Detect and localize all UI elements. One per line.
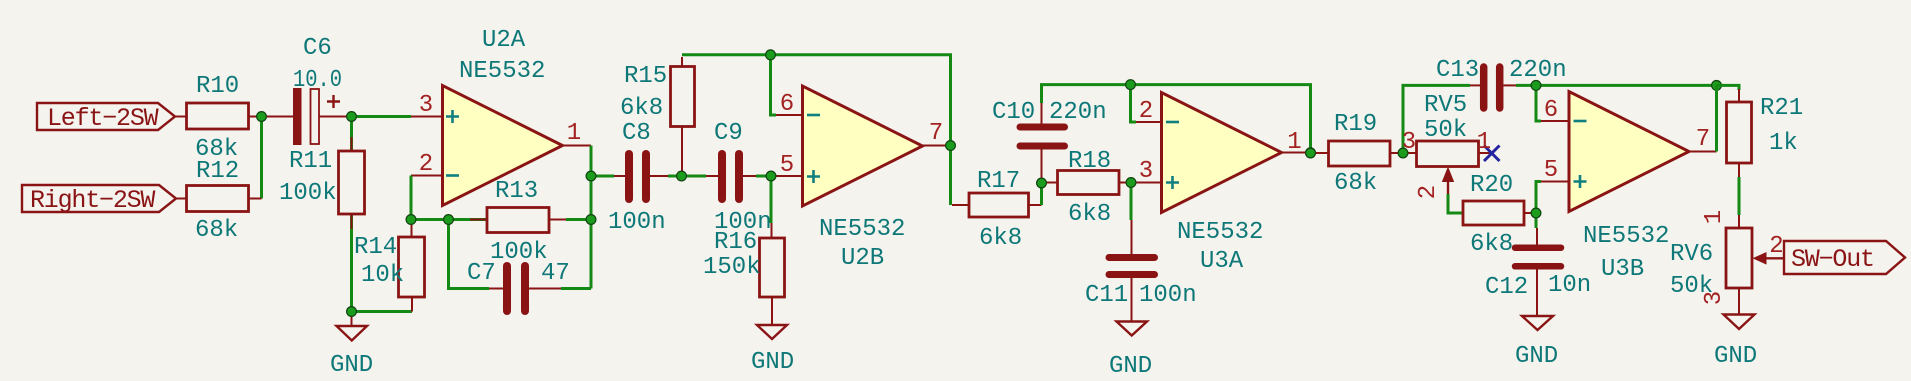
svg-text:C10: C10	[992, 99, 1035, 126]
junction pin5 node	[766, 171, 776, 181]
U2B minus symbol	[807, 114, 820, 117]
svg-text:1: 1	[1477, 129, 1491, 156]
wire node A vertical	[1040, 183, 1043, 205]
op-amp U3A body	[1162, 93, 1282, 213]
C11 bottom stem to GND	[1131, 278, 1133, 322]
resistor R20	[1463, 201, 1524, 225]
R18 right stub	[1119, 182, 1131, 184]
junction output rail U3B	[1712, 81, 1722, 91]
wire pin6 drop	[771, 55, 777, 115]
no-connect X RV5 pin1	[1484, 146, 1500, 162]
wire pin3 node down to C11	[1130, 183, 1133, 221]
wire output node to C8	[591, 175, 614, 178]
C9 right stub	[743, 175, 756, 177]
R16 bottom stub to GND	[771, 297, 773, 325]
C9 left stub	[706, 175, 718, 177]
R21 top stub	[1738, 89, 1740, 102]
capacitor C8 plates	[625, 154, 633, 199]
C12 bottom stem to GND	[1536, 270, 1538, 317]
svg-text:1: 1	[1287, 129, 1301, 156]
RV6 top stub	[1738, 215, 1740, 228]
wire rail to R21 top	[1717, 85, 1740, 90]
svg-text:R20: R20	[1470, 172, 1513, 199]
C11 top stem	[1131, 220, 1133, 254]
ground symbol GND3	[1117, 322, 1148, 336]
svg-text:100k: 100k	[490, 239, 548, 266]
pin 2 stub U3A	[1136, 121, 1162, 123]
pin 5 stub U2B	[776, 175, 803, 177]
pin 5 stub U3B	[1541, 181, 1570, 183]
capacitor C6 left plate	[293, 88, 302, 145]
resistor R19	[1329, 141, 1391, 166]
svg-text:U2B: U2B	[841, 245, 884, 272]
pin 3 stub U3A	[1136, 182, 1162, 184]
resistor R10	[187, 103, 249, 129]
svg-text:GND: GND	[751, 349, 794, 376]
wire rail to output corner	[1536, 84, 1717, 87]
svg-text:10n: 10n	[1548, 272, 1591, 299]
U3A output pin stub	[1282, 152, 1311, 154]
R17 right stub to node A	[1029, 204, 1042, 206]
svg-text:6k8: 6k8	[1068, 201, 1111, 228]
wire pin2 drop U3A	[1131, 85, 1137, 122]
svg-text:100n: 100n	[1139, 282, 1197, 309]
svg-text:3: 3	[1701, 291, 1728, 305]
junction node B	[347, 112, 357, 122]
svg-text:220n: 220n	[1049, 99, 1107, 126]
U2A plus symbol	[446, 110, 459, 123]
U3B output pin stub	[1689, 151, 1717, 153]
svg-text:R14: R14	[354, 234, 397, 261]
svg-text:R17: R17	[977, 168, 1020, 195]
svg-text:2: 2	[1415, 185, 1442, 199]
resistor R13	[487, 208, 549, 233]
svg-text:10.0: 10.0	[293, 67, 342, 94]
svg-text:1: 1	[1701, 210, 1728, 224]
svg-text:R18: R18	[1068, 148, 1111, 175]
R19 right stub	[1390, 152, 1403, 154]
RV6 bottom stub to GND	[1738, 288, 1740, 315]
svg-text:6k8: 6k8	[1470, 231, 1513, 258]
C7 right stub	[529, 288, 561, 290]
svg-text:R21: R21	[1760, 95, 1803, 122]
junction C7 tee	[444, 215, 454, 225]
RV5 left stub	[1403, 152, 1417, 154]
wire R20 node up to pin5	[1536, 182, 1541, 214]
C13 right stub	[1504, 84, 1517, 86]
resistor R14	[399, 237, 425, 297]
svg-text:2: 2	[419, 151, 433, 178]
svg-text:C11: C11	[1085, 282, 1128, 309]
op-amp U2B body	[803, 86, 923, 206]
wire R21 to RV6	[1738, 177, 1741, 215]
resistor R12	[187, 186, 249, 212]
wire C6 to node B	[319, 116, 352, 118]
capacitor C11 plates	[1109, 254, 1155, 261]
op-amp U2A body	[443, 86, 563, 206]
svg-text:6: 6	[780, 91, 794, 118]
svg-text:C12: C12	[1485, 274, 1528, 301]
R18 left stub	[1042, 182, 1058, 184]
wire pin5 node down to R16	[770, 176, 773, 223]
svg-text:6: 6	[1544, 97, 1558, 124]
R20 right stub	[1524, 212, 1536, 214]
R14 top stub	[411, 220, 413, 238]
svg-text:R16: R16	[714, 229, 757, 256]
U2A output pin stub	[563, 145, 592, 147]
svg-text:7: 7	[1696, 126, 1710, 153]
svg-text:6k8: 6k8	[620, 95, 663, 122]
svg-text:1k: 1k	[1769, 130, 1798, 157]
svg-text:GND: GND	[1714, 343, 1757, 370]
svg-text:NE5532: NE5532	[1583, 223, 1669, 250]
capacitor C7 plates	[503, 266, 511, 311]
svg-text:R11: R11	[289, 148, 332, 175]
svg-text:C9: C9	[714, 120, 743, 147]
R16 top stub	[771, 223, 773, 238]
C12 top stem	[1536, 228, 1538, 246]
pin 6 stub U3B	[1541, 120, 1570, 122]
svg-text:5: 5	[1544, 157, 1558, 184]
op-amp U3B body	[1569, 92, 1689, 212]
U3A minus symbol	[1166, 121, 1179, 124]
svg-text:R10: R10	[196, 73, 239, 100]
pin 3 stub U2A	[411, 116, 443, 118]
junction R20 C12 node	[1531, 208, 1541, 218]
R13 right stub	[549, 219, 566, 221]
capacitor C6 right plate	[311, 89, 320, 144]
svg-text:C7: C7	[467, 260, 496, 287]
wire C7 to output rail	[561, 287, 591, 290]
R11 pin stubs	[351, 137, 353, 214]
junction pin2 rail U3A	[1126, 80, 1136, 90]
U3B minus symbol	[1574, 120, 1587, 123]
ground symbol GND1	[351, 312, 353, 327]
svg-text:10k: 10k	[361, 262, 404, 289]
wire pin3 node	[1131, 181, 1136, 184]
C8 right stub	[650, 175, 668, 177]
svg-text:47: 47	[541, 260, 570, 287]
wire node B down through R11 to GND rail	[350, 117, 353, 312]
RV5 wiper arrow	[1442, 167, 1454, 183]
svg-text:150k: 150k	[703, 254, 761, 281]
junction U3A output	[1306, 148, 1316, 158]
svg-text:3: 3	[1139, 158, 1153, 185]
junction minus rail left	[406, 215, 416, 225]
junction node input	[257, 112, 267, 122]
svg-text:50k: 50k	[1424, 117, 1467, 144]
resistor R17	[969, 193, 1029, 217]
svg-text:100n: 100n	[608, 209, 666, 236]
wire C9 to pin5 node	[756, 175, 776, 178]
C13 left stub	[1470, 84, 1480, 86]
RV6 wiper arrow	[1753, 252, 1767, 265]
svg-text:5: 5	[780, 152, 794, 179]
U3A plus symbol	[1166, 176, 1179, 189]
wire C8 to C9	[668, 175, 706, 178]
wire R13 to output rail	[566, 218, 591, 221]
svg-text:7: 7	[929, 120, 943, 147]
U2B output pin stub	[923, 145, 951, 147]
ground symbol GND2	[757, 325, 787, 339]
ground symbol GND4	[1522, 316, 1553, 330]
svg-text:6k8: 6k8	[979, 225, 1022, 252]
U2B plus symbol	[807, 170, 820, 183]
wire C10 up to feedback rail	[1042, 85, 1311, 153]
svg-text:RV6: RV6	[1670, 241, 1713, 268]
wire pin6 drop U3B	[1536, 85, 1541, 121]
R11 pin stub bottom	[351, 214, 353, 229]
R21 bottom stub	[1738, 163, 1740, 177]
svg-text:NE5532: NE5532	[819, 216, 905, 243]
svg-text:SW−Out: SW−Out	[1791, 245, 1874, 274]
capacitor C12 plates	[1515, 244, 1561, 251]
capacitor C10 plates	[1020, 124, 1065, 131]
R17 left stub	[952, 204, 969, 206]
wire U2A output vertical	[590, 146, 593, 289]
C10 top stem	[1041, 103, 1043, 124]
wire pin2 down to feedback rail	[411, 176, 449, 220]
potentiometer RV6 body	[1726, 228, 1752, 288]
global label SW-Out	[1784, 241, 1905, 274]
svg-text:R19: R19	[1334, 111, 1377, 138]
C10 bottom stem	[1041, 149, 1043, 183]
junction output tee	[586, 171, 596, 181]
wire C7 branch down-left	[449, 220, 490, 289]
svg-text:RV5: RV5	[1424, 92, 1467, 119]
junction GND rail	[347, 307, 357, 317]
wire feedback rail top	[682, 55, 951, 146]
junction pin6 rail	[766, 50, 776, 60]
svg-text:GND: GND	[330, 352, 373, 379]
svg-text:Right−2SW: Right−2SW	[30, 186, 155, 215]
svg-text:NE5532: NE5532	[1177, 219, 1263, 246]
svg-text:C6: C6	[303, 35, 332, 62]
svg-text:NE5532: NE5532	[459, 58, 545, 85]
svg-text:R13: R13	[495, 178, 538, 205]
svg-text:GND: GND	[1515, 343, 1558, 370]
svg-text:U3B: U3B	[1601, 256, 1644, 283]
R15 bottom stub	[681, 127, 683, 176]
svg-text:U2A: U2A	[482, 27, 526, 54]
U3B plus symbol	[1574, 175, 1587, 188]
svg-text:C8: C8	[622, 120, 651, 147]
pin 2 stub U2A	[411, 175, 443, 177]
junction feedback right	[586, 215, 596, 225]
wire C13 to pin6 node	[1516, 84, 1536, 87]
global label Left-2SW	[37, 103, 175, 130]
wire rail to R13	[449, 218, 488, 221]
wire R12 to node	[249, 198, 262, 200]
junction R19 right	[1398, 148, 1408, 158]
svg-text:3: 3	[1402, 129, 1416, 156]
junction node A	[1037, 178, 1047, 188]
potentiometer RV5 body	[1417, 141, 1479, 167]
R13 left stub	[470, 219, 487, 221]
wire R20 node down to C12	[1535, 213, 1538, 228]
resistor R15	[671, 67, 695, 127]
svg-text:R12: R12	[196, 158, 239, 185]
svg-text:Left−2SW: Left−2SW	[47, 104, 159, 133]
wire R10 to C6	[249, 116, 294, 118]
junction pin6 node U3B	[1531, 81, 1541, 91]
junction U2B output	[946, 141, 956, 151]
junction pin3 node	[1126, 178, 1136, 188]
wire GND junction to R14 bottom	[352, 310, 413, 313]
resistor R16	[760, 238, 785, 297]
resistor R18	[1058, 171, 1120, 195]
wire R19 node up to C13	[1403, 85, 1470, 153]
wire Right input to R12	[176, 198, 187, 200]
R19 left stub	[1311, 152, 1329, 154]
global label Right-2SW	[22, 185, 176, 212]
pin 6 stub U2B	[776, 114, 803, 116]
wire U3B output up to rail	[1715, 85, 1718, 151]
resistor R21	[1727, 102, 1752, 163]
svg-text:U3A: U3A	[1200, 248, 1244, 275]
R14 bottom stub	[411, 297, 413, 312]
svg-text:3: 3	[419, 92, 433, 119]
svg-text:1: 1	[567, 120, 581, 147]
junction C8-C9 R15 tee	[677, 171, 687, 181]
svg-text:2: 2	[1769, 233, 1783, 260]
svg-text:220n: 220n	[1509, 57, 1567, 84]
U2A minus symbol	[446, 174, 459, 177]
svg-text:R15: R15	[624, 63, 667, 90]
capacitor C9 plates	[718, 154, 726, 199]
wire U2B output down to R17	[949, 146, 952, 206]
svg-text:100k: 100k	[279, 180, 337, 207]
capacitor C13 plates	[1480, 67, 1488, 108]
wire node to R12 (vertical)	[260, 117, 263, 199]
resistor R11	[339, 151, 365, 214]
svg-text:2: 2	[1139, 98, 1153, 125]
svg-text:68k: 68k	[1334, 170, 1377, 197]
wire node B to U2A pin3	[352, 115, 412, 118]
svg-text:C13: C13	[1436, 57, 1479, 84]
C7 left stub	[489, 288, 503, 290]
C8 left stub	[614, 175, 625, 177]
svg-text:GND: GND	[1109, 353, 1152, 380]
ground symbol GND5	[1724, 315, 1755, 330]
RV5 right stub	[1479, 152, 1492, 154]
wire RV5 wiper to R20	[1448, 194, 1463, 213]
wire Left input to R10	[175, 116, 187, 118]
svg-text:68k: 68k	[195, 217, 238, 244]
R15 top stub	[681, 57, 683, 67]
C6 polarity plus	[327, 95, 340, 108]
junction R19 left	[1306, 148, 1316, 158]
